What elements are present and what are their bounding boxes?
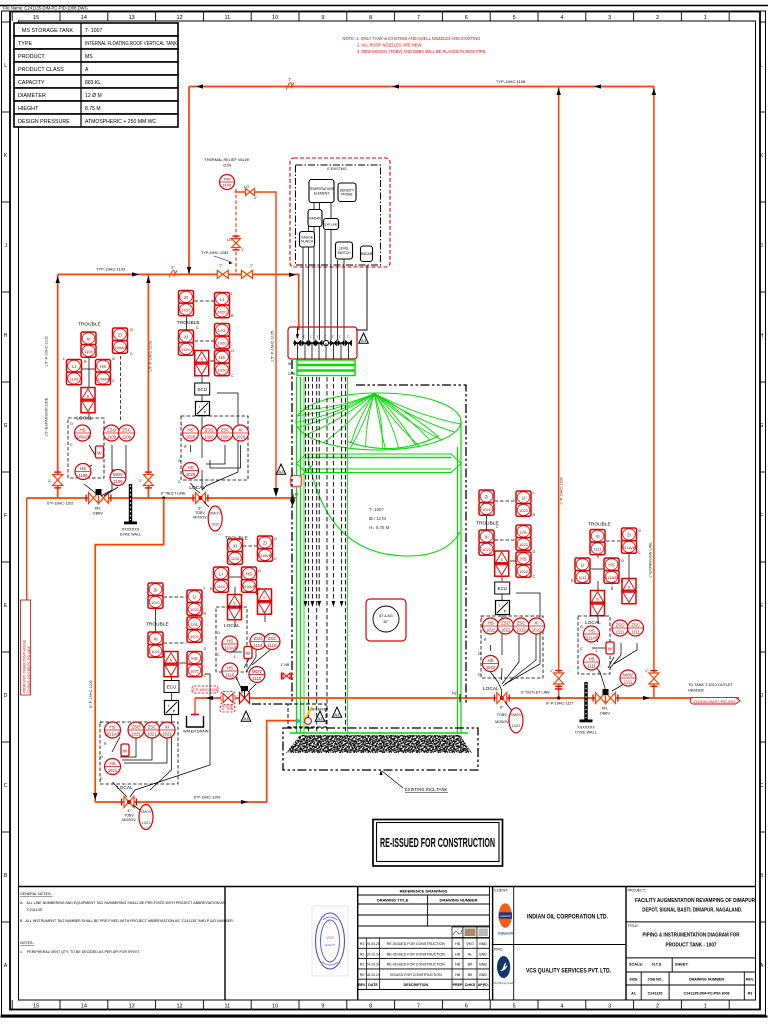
svg-text:XI: XI <box>86 336 90 341</box>
svg-text:INTERNAL FLOATING ROOF VERTICA: INTERNAL FLOATING ROOF VERTICAL TANK <box>85 41 178 47</box>
svg-text:O: O <box>130 328 133 332</box>
svg-text:TOBV: TOBV <box>497 713 507 717</box>
svg-text:O: O <box>258 569 261 573</box>
instrument HS 1109A/B <box>75 425 91 441</box>
blue certification seal <box>312 906 348 976</box>
instrument HS 1022 <box>516 552 531 577</box>
svg-text:1020: 1020 <box>182 347 192 352</box>
svg-text:ZSC: ZSC <box>631 622 640 627</box>
svg-text:ZSO: ZSO <box>615 622 625 627</box>
svg-text:1020: 1020 <box>204 435 214 440</box>
svg-text:1021: 1021 <box>131 732 141 737</box>
svg-text:C: C <box>217 653 220 657</box>
svg-text:S: S <box>87 394 90 399</box>
svg-text:ZSC: ZSC <box>148 724 157 729</box>
instrument LI 1022 <box>516 491 531 516</box>
svg-text:R: R <box>210 587 213 591</box>
svg-text:IndianOil: IndianOil <box>498 931 514 935</box>
svg-text:XXXXXXX: XXXXXXX <box>122 528 140 532</box>
revision table <box>358 938 490 990</box>
instrument ZSO 1021 <box>128 722 144 738</box>
tank data table <box>14 23 178 127</box>
svg-text:BND: BND <box>479 963 487 967</box>
svg-text:7: 7 <box>417 15 420 21</box>
svg-text:1021A/B: 1021A/B <box>104 732 120 737</box>
instrument ZSO 1110 <box>250 634 266 650</box>
svg-text:1"-P-19HC-1109: 1"-P-19HC-1109 <box>560 477 564 505</box>
svg-text:SWITCH: SWITCH <box>337 251 351 255</box>
I/P converter <box>496 601 510 615</box>
ECU converter <box>195 383 210 395</box>
svg-text:1021: 1021 <box>190 607 200 612</box>
svg-text:ZI: ZI <box>154 587 158 592</box>
svg-text:MOSOV: MOSOV <box>193 516 207 520</box>
svg-text:C: C <box>638 551 641 555</box>
svg-text:PIPING & INSTRUMENTATION DIAGR: PIPING & INSTRUMENTATION DIAGRAM FOR <box>643 933 740 939</box>
svg-text:1021: 1021 <box>147 732 157 737</box>
instrument XI 1110 <box>228 539 243 564</box>
note flag triangle <box>359 333 369 343</box>
svg-text:O: O <box>204 647 207 651</box>
existing tank label <box>379 770 448 793</box>
note flag triangle <box>241 711 251 721</box>
svg-text:LAL: LAL <box>519 529 528 534</box>
svg-text:1110A/B: 1110A/B <box>222 646 238 651</box>
svg-text:1111A/B: 1111A/B <box>584 636 599 641</box>
svg-text:MS: MS <box>85 54 93 60</box>
svg-text:L: L <box>4 63 7 69</box>
svg-text:1110: 1110 <box>231 556 240 561</box>
svg-text:S: S <box>500 557 503 562</box>
svg-text:DESCRIPTION: DESCRIPTION <box>404 983 429 987</box>
svg-text:6T & AG: 6T & AG <box>379 614 393 618</box>
wire right of enclosure <box>356 265 367 330</box>
tank roof flange stack <box>288 360 355 376</box>
svg-text:ZSC: ZSC <box>221 427 230 432</box>
svg-text:883 KL: 883 KL <box>85 80 101 86</box>
svg-text:1" EXPANSION LINE: 1" EXPANSION LINE <box>649 542 653 578</box>
svg-text:BND: BND <box>479 942 487 946</box>
instrument MOV 1109 <box>110 470 126 486</box>
svg-text:RADAR: RADAR <box>309 216 321 220</box>
note flag triangle <box>276 464 286 474</box>
svg-text:LOCAL: LOCAL <box>224 623 240 629</box>
svg-text:1": 1" <box>339 335 342 339</box>
cluster 1111 wires <box>590 541 637 693</box>
svg-text:REV.: REV. <box>358 983 366 987</box>
svg-text:A3: A3 <box>279 469 285 474</box>
svg-text:O: O <box>178 459 181 463</box>
svg-text:A3: A3 <box>244 716 250 721</box>
title block dividers <box>225 887 626 1001</box>
instrument ZSO 1022 <box>498 618 514 634</box>
svg-text:B. ALL INSTRUMENT TAG NUMBER: B. ALL INSTRUMENT TAG NUMBER SHALL BE PR… <box>20 919 234 923</box>
dyke wall <box>120 484 142 537</box>
svg-text:BND: BND <box>479 952 487 956</box>
logic solver <box>258 589 272 614</box>
instrument XI 1109 <box>81 332 96 357</box>
svg-text:DYKE WALL: DYKE WALL <box>575 731 597 735</box>
svg-text:5: 5 <box>513 15 516 21</box>
svg-text:DRAWING TITLE: DRAWING TITLE <box>377 898 409 903</box>
I/P converter <box>196 402 210 416</box>
svg-text:TYP-19HC-1103: TYP-19HC-1103 <box>96 267 126 272</box>
note flag triangle <box>315 711 325 721</box>
svg-text:8.75 M: 8.75 M <box>85 106 101 112</box>
svg-text:HB: HB <box>455 973 461 977</box>
svg-text:SHEET:: SHEET: <box>675 963 689 967</box>
logic solver <box>195 351 209 376</box>
svg-text:A1: A1 <box>631 992 636 996</box>
svg-text:RE-ISSUED FOR CONSTRUCTION: RE-ISSUED FOR CONSTRUCTION <box>380 835 495 850</box>
svg-text:THERMAL RELIEF VALVE: THERMAL RELIEF VALVE <box>204 158 250 162</box>
svg-text:REFERENCE DRAWINGS: REFERENCE DRAWINGS <box>400 889 448 894</box>
svg-text:1.5"-P-19HC-1103: 1.5"-P-19HC-1103 <box>149 341 153 372</box>
svg-text:1111: 1111 <box>616 630 625 635</box>
svg-text:EXP LINE: EXP LINE <box>325 222 338 226</box>
instrument LAL 1020 <box>215 324 230 349</box>
svg-text:HB: HB <box>455 963 461 967</box>
floating deck arc <box>308 457 460 556</box>
svg-text:C: C <box>4 783 8 789</box>
svg-text:XI: XI <box>595 534 599 539</box>
svg-text:MOSOV: MOSOV <box>122 818 136 822</box>
dip tubes dashed <box>304 377 346 731</box>
svg-text:O: O <box>217 631 220 635</box>
svg-text:4"P-19HC-1104: 4"P-19HC-1104 <box>193 688 218 692</box>
svg-text:SMOV: SMOV <box>140 810 152 814</box>
svg-text:1020: 1020 <box>220 435 230 440</box>
re-issued stamp box <box>373 820 503 867</box>
svg-text:O: O <box>70 422 73 426</box>
svg-text:1": 1" <box>303 335 306 339</box>
inlet label box 4"P-19HC-1104 <box>192 686 218 693</box>
svg-text:HUNCH: HUNCH <box>301 240 314 244</box>
svg-text:CAPACITY: CAPACITY <box>18 80 45 86</box>
svg-text:1022: 1022 <box>519 569 529 574</box>
shell nozzle red <box>291 466 313 487</box>
svg-text:DESIGN PRESSURE: DESIGN PRESSURE <box>18 119 70 125</box>
svg-text:F: F <box>4 513 7 519</box>
svg-text:3. NEW MOSOV (TOBV) AND DBBV W: 3. NEW MOSOV (TOBV) AND DBBV WILL BE PLA… <box>357 49 486 54</box>
svg-text:XI: XI <box>233 543 237 548</box>
logic solver <box>591 591 605 616</box>
notes text red <box>343 36 487 54</box>
svg-text:1022: 1022 <box>516 628 526 633</box>
note flag triangle <box>332 707 342 717</box>
svg-text:HS: HS <box>227 638 233 643</box>
svg-text:1": 1" <box>332 335 335 339</box>
outlet ref label box <box>690 697 740 704</box>
cluster 1020 local dashed box <box>181 416 248 480</box>
instrument ZI 110A/B <box>258 536 273 561</box>
svg-text:XXXXXXX: XXXXXXX <box>577 726 595 730</box>
svg-text:1020: 1020 <box>236 435 246 440</box>
svg-text:6"P-19HC-1109: 6"P-19HC-1109 <box>194 796 220 800</box>
svg-text:110A/B: 110A/B <box>243 584 256 589</box>
svg-text:HS: HS <box>608 562 614 567</box>
instrument ZSC 1021 <box>144 722 160 738</box>
svg-text:O: O <box>478 652 481 656</box>
instrument HS 1021 <box>105 759 121 775</box>
svg-text:R0: R0 <box>360 973 365 977</box>
instrument ZI 1021 <box>148 583 163 608</box>
svg-text:C: C <box>478 673 481 677</box>
svg-text:HS: HS <box>79 427 85 432</box>
valve 6" TOBV MOSOV outlet <box>494 693 512 725</box>
instrument ZSC 1109 <box>119 425 135 441</box>
title block top line <box>19 886 756 888</box>
svg-text:XI: XI <box>184 334 188 339</box>
svg-text:ZSO: ZSO <box>204 427 214 432</box>
SMOV 1022 <box>509 708 523 733</box>
svg-text:18.10.24: 18.10.24 <box>366 973 380 977</box>
enclosure wires to manifold <box>303 197 344 340</box>
svg-text:1109A/B: 1109A/B <box>75 435 91 440</box>
instrument LAL 1021 <box>187 617 202 642</box>
cluster 1111 local dashed box <box>578 616 610 674</box>
svg-text:1022: 1022 <box>519 508 529 513</box>
svg-text:XI: XI <box>484 534 488 539</box>
svg-text:1109A/B: 1109A/B <box>95 376 110 381</box>
instrument ZI 111A/B <box>622 528 637 553</box>
instrument ZSC 1022 <box>513 618 529 634</box>
svg-text:O: O <box>580 625 583 629</box>
svg-text:DEPOT, SIGNAL BASTI, DIMAPUR,: DEPOT, SIGNAL BASTI, DIMAPUR, NAGALAND. <box>642 908 742 914</box>
svg-text:VKG: VKG <box>466 942 474 946</box>
drawing number row <box>626 972 756 1000</box>
svg-text:5: 5 <box>513 1004 516 1010</box>
instrument LI 1109 <box>67 360 82 385</box>
cluster 1022 local dashed box <box>481 616 543 678</box>
boundary dash-dot top-right <box>356 385 466 704</box>
svg-text:1021: 1021 <box>108 768 118 773</box>
svg-text:FROM MSPL DIGBOI PUMP HOUSE: FROM MSPL DIGBOI PUMP HOUSE <box>23 640 27 693</box>
ECU converter <box>164 681 179 693</box>
interlock box <box>244 647 252 659</box>
svg-text:PRODUCT: PRODUCT <box>18 54 45 60</box>
svg-text:BK: BK <box>468 963 473 967</box>
svg-text:1109: 1109 <box>113 479 123 484</box>
svg-text:R: R <box>231 314 234 318</box>
logic solver <box>622 579 636 604</box>
svg-text:PREP: PREP <box>453 983 463 987</box>
svg-text:O: O <box>100 755 103 759</box>
svg-text:Simplifying Quality: Simplifying Quality <box>494 982 515 985</box>
svg-text:INDIAN OIL CORPORATION LTD.: INDIAN OIL CORPORATION LTD. <box>527 914 608 921</box>
svg-text:N.T.S: N.T.S <box>652 963 662 967</box>
instrument ZSO 1109 <box>104 425 120 441</box>
svg-text:T- 1007: T- 1007 <box>369 507 384 512</box>
svg-text:LOCAL: LOCAL <box>117 785 133 791</box>
svg-text:C: C <box>130 352 133 356</box>
svg-text:1111: 1111 <box>593 546 602 551</box>
instrument XI 1111 <box>590 530 605 555</box>
svg-text:1020: 1020 <box>218 340 228 345</box>
svg-text:TROUBLE: TROUBLE <box>146 622 169 628</box>
enclosure inner dash-dot <box>296 165 381 265</box>
instrument XI 1020 <box>179 330 194 355</box>
svg-text:6: 6 <box>465 15 468 21</box>
svg-text:1109: 1109 <box>84 349 93 354</box>
cluster 1021 wires <box>112 597 210 797</box>
svg-text:LO: LO <box>227 238 232 242</box>
svg-text:C: C <box>580 647 583 651</box>
pipe bottom 6"P-19HC-1109 <box>95 721 297 805</box>
client panel <box>493 887 626 1001</box>
instrument HS 1020 <box>183 463 199 479</box>
svg-text:A. ALL LINE NUMBERING AND EQ: A. ALL LINE NUMBERING AND EQUIPMENT TAG … <box>20 901 226 905</box>
svg-text:1110: 1110 <box>217 584 226 589</box>
svg-text:H= 8.75 M: H= 8.75 M <box>369 525 390 530</box>
svg-text:ZSO: ZSO <box>501 620 511 625</box>
svg-text:HS: HS <box>109 724 115 729</box>
instrument XI 1021 <box>159 722 175 738</box>
svg-text:G: G <box>4 423 8 429</box>
tank shell left wall <box>297 377 301 733</box>
SMOV 1021 <box>133 805 153 830</box>
svg-text:ZSO: ZSO <box>253 636 263 641</box>
svg-text:ZSC: ZSC <box>122 427 131 432</box>
svg-text:TOBV: TOBV <box>124 814 134 818</box>
instrument HS 1021A/B <box>104 722 120 738</box>
svg-text:1020: 1020 <box>182 307 192 312</box>
svg-text:1": 1" <box>310 335 313 339</box>
svg-text:O: O <box>638 529 641 533</box>
svg-text:A3: A3 <box>361 338 367 343</box>
svg-text:A3: A3 <box>335 712 341 717</box>
svg-text:VCS QUALITY SERVICES PVT. LTD.: VCS QUALITY SERVICES PVT. LTD. <box>526 968 611 975</box>
svg-text:H: H <box>760 333 764 339</box>
svg-text:L: L <box>100 720 102 724</box>
svg-text:1.5"-P-19HC-1102: 1.5"-P-19HC-1102 <box>45 336 49 367</box>
valve 4" TOBV red <box>240 686 250 704</box>
cluster 1021 local dashed box <box>100 722 178 784</box>
svg-text:12 Ø M: 12 Ø M <box>85 93 102 99</box>
svg-text:1.5"-P-19HC-1105: 1.5"-P-19HC-1105 <box>271 331 275 362</box>
svg-text:C241135: C241135 <box>648 992 663 996</box>
svg-text:LOCAL: LOCAL <box>483 686 499 692</box>
svg-text:PROBE: PROBE <box>341 193 353 197</box>
svg-text:1: 1 <box>704 1004 707 1010</box>
svg-text:Ø= 12 M: Ø= 12 M <box>369 516 386 521</box>
svg-text:1109: 1109 <box>122 435 132 440</box>
svg-text:C: C <box>100 777 103 781</box>
svg-text:R2: R2 <box>360 952 365 956</box>
svg-text:1022: 1022 <box>532 628 542 633</box>
svg-text:1020: 1020 <box>218 367 228 372</box>
svg-text:MOSOV: MOSOV <box>495 720 509 724</box>
svg-text:F: F <box>760 513 763 519</box>
svg-text:TROUBLE: TROUBLE <box>78 322 101 328</box>
water drain <box>183 698 209 734</box>
svg-text:C: C <box>760 783 764 789</box>
svg-text:1022: 1022 <box>482 507 492 512</box>
svg-text:HS: HS <box>187 427 193 432</box>
cluster 1109 local dashed box <box>68 418 104 478</box>
level switch box <box>336 242 353 259</box>
svg-text:111A/B: 111A/B <box>623 545 636 550</box>
svg-text:C: C <box>496 525 499 529</box>
valve KFL DBBV <box>86 489 111 516</box>
svg-text:H: H <box>4 333 8 339</box>
svg-text:ZSC: ZSC <box>517 620 526 625</box>
svg-text:C: C <box>178 480 181 484</box>
valve KFL DBBV outlet <box>593 689 618 716</box>
instrument ZSC 1020 <box>217 425 233 441</box>
pipe inlet 6" P-19HC-1102 <box>27 492 298 506</box>
svg-text:ZSC: ZSC <box>268 636 277 641</box>
svg-text:R3: R3 <box>748 992 753 996</box>
svg-text:MOV: MOV <box>623 672 633 677</box>
svg-text:L: L <box>204 586 206 590</box>
svg-text:1110: 1110 <box>226 673 235 678</box>
svg-text:L: L <box>63 357 65 361</box>
float gauge symbol <box>366 599 406 641</box>
svg-text:O: O <box>533 550 536 554</box>
svg-text:1. PERIPHERAL VENT QTY. TO: 1. PERIPHERAL VENT QTY. TO BE DECIDED AS… <box>20 950 140 954</box>
inlet nozzle node <box>290 495 295 506</box>
svg-text:1022: 1022 <box>486 628 496 633</box>
svg-text:R: R <box>484 638 487 642</box>
pipe riser x558.7 <box>550 87 564 699</box>
VCS logo <box>494 956 515 985</box>
instrument ZSC 1110 <box>264 634 280 650</box>
svg-text:SMOV: SMOV <box>210 512 222 516</box>
svg-text:O: O <box>621 559 624 563</box>
svg-text:DRAWING NUMBER: DRAWING NUMBER <box>440 898 478 903</box>
svg-text:ZSO: ZSO <box>107 427 117 432</box>
instrument HS 1022 <box>483 618 499 634</box>
instrument LI 1110 <box>214 567 229 592</box>
svg-text:HS: HS <box>187 465 193 470</box>
svg-text:R: R <box>104 742 107 746</box>
svg-text:ZSO: ZSO <box>131 724 141 729</box>
svg-text:HS: HS <box>520 556 526 561</box>
top file-name strip <box>0 6 768 11</box>
tank shell right wall <box>458 420 462 733</box>
svg-text:NOTES:-: NOTES:- <box>20 941 35 945</box>
svg-text:L: L <box>234 655 236 659</box>
svg-text:KFL: KFL <box>95 507 102 511</box>
svg-text:TO TANK T-1013 OUTLET: TO TANK T-1013 OUTLET <box>688 683 734 687</box>
svg-text:MOV: MOV <box>113 472 123 477</box>
svg-text:C241135-DIM-PC-PID-1003: C241135-DIM-PC-PID-1003 <box>693 700 735 704</box>
instrument HS 110A/B <box>242 567 257 592</box>
svg-text:11: 11 <box>224 1004 230 1010</box>
svg-text:MOV: MOV <box>252 669 262 674</box>
svg-text:DIAMETER: DIAMETER <box>18 93 46 99</box>
logic solver <box>81 388 95 413</box>
cluster 1020 wires <box>187 301 241 493</box>
svg-text:HS: HS <box>246 571 252 576</box>
instrument LI 1020 <box>215 293 230 318</box>
future valve dashed <box>221 692 235 705</box>
cluster 1110 wires <box>229 546 270 693</box>
svg-text:L: L <box>760 63 763 69</box>
svg-text:R: R <box>204 612 207 616</box>
instrument HS 1109 <box>75 464 91 480</box>
logic solver <box>495 551 509 576</box>
svg-text:R: R <box>598 671 601 675</box>
ECU converter <box>495 582 510 594</box>
exp line box <box>324 219 339 230</box>
svg-text:4" TRB: 4" TRB <box>222 707 234 711</box>
thermal relief valve TRV 1109 <box>204 158 250 190</box>
svg-text:G: G <box>760 423 764 429</box>
SMOV 1020 <box>204 502 222 531</box>
svg-text:BK: BK <box>468 973 473 977</box>
